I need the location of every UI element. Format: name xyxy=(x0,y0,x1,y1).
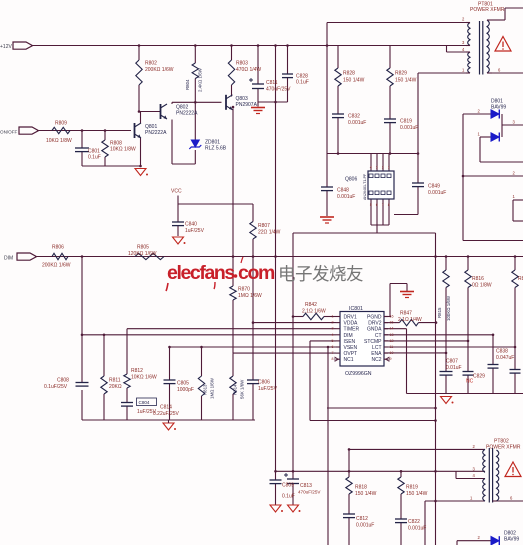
svg-text:0Ω 1/8W: 0Ω 1/8W xyxy=(472,283,492,289)
svg-text:电子发烧友: 电子发烧友 xyxy=(278,264,363,284)
svg-text:0.047uF: 0.047uF xyxy=(496,355,514,361)
svg-text:C840: C840 xyxy=(185,222,197,228)
svg-text:C812: C812 xyxy=(356,516,368,522)
svg-text:1: 1 xyxy=(388,166,390,170)
svg-text:GNDA: GNDA xyxy=(367,327,382,333)
svg-text:C804: C804 xyxy=(139,400,150,405)
svg-text:NC2: NC2 xyxy=(371,357,381,363)
svg-text:R818: R818 xyxy=(355,485,367,491)
svg-text:C822: C822 xyxy=(408,519,420,525)
svg-text:PGND: PGND xyxy=(367,315,382,321)
svg-text:470uF/25V: 470uF/25V xyxy=(298,490,321,495)
svg-text:0.001uF: 0.001uF xyxy=(356,523,374,529)
svg-text:150 1/4W: 150 1/4W xyxy=(406,491,428,497)
svg-text:8: 8 xyxy=(332,357,334,361)
svg-text:R806: R806 xyxy=(52,245,64,251)
svg-text:R811: R811 xyxy=(109,378,121,384)
svg-text:C814: C814 xyxy=(160,405,172,411)
svg-text:8: 8 xyxy=(388,203,390,207)
svg-text:0.01uF: 0.01uF xyxy=(446,365,462,371)
svg-text:VCC: VCC xyxy=(171,189,182,195)
svg-text:56K 1/6W: 56K 1/6W xyxy=(240,379,245,399)
svg-text:20KΩ: 20KΩ xyxy=(109,384,122,390)
svg-text:2.1Ω 1/6W: 2.1Ω 1/6W xyxy=(302,309,326,315)
svg-text:1uF/25V: 1uF/25V xyxy=(258,386,278,392)
svg-text:3: 3 xyxy=(332,327,334,331)
svg-text:12: 12 xyxy=(390,339,394,343)
svg-text:0.1uF: 0.1uF xyxy=(296,80,309,86)
svg-text:BAV99: BAV99 xyxy=(491,105,506,111)
svg-text:IC801: IC801 xyxy=(349,306,363,312)
svg-text:14: 14 xyxy=(390,327,394,331)
svg-text:R805: R805 xyxy=(137,245,149,251)
svg-text:0.001uF: 0.001uF xyxy=(408,526,426,532)
svg-text:2.4KΩ 1/6W: 2.4KΩ 1/6W xyxy=(198,67,203,92)
svg-text:R804: R804 xyxy=(185,79,190,90)
svg-text:R828: R828 xyxy=(343,71,355,77)
svg-text:NC1: NC1 xyxy=(344,357,354,363)
svg-text:DIM: DIM xyxy=(4,256,13,262)
svg-text:C838: C838 xyxy=(496,349,508,355)
svg-text:150 1/4W: 150 1/4W xyxy=(395,78,417,84)
svg-text:10KΩ 1/6W: 10KΩ 1/6W xyxy=(131,375,157,381)
svg-text:0.1uF/25V: 0.1uF/25V xyxy=(44,384,68,390)
svg-text:150 1/4W: 150 1/4W xyxy=(355,491,377,497)
svg-text:AN26481-T1-PF: AN26481-T1-PF xyxy=(363,173,367,200)
svg-text:R809: R809 xyxy=(55,121,67,127)
svg-text:ISEN: ISEN xyxy=(344,339,356,345)
svg-text:R807: R807 xyxy=(258,223,270,229)
svg-text:120KΩ 1/6W: 120KΩ 1/6W xyxy=(128,251,157,257)
svg-text:3: 3 xyxy=(376,166,378,170)
svg-text:11: 11 xyxy=(390,345,394,349)
svg-text:2: 2 xyxy=(382,166,384,170)
svg-text:200KΩ 1/6W: 200KΩ 1/6W xyxy=(42,263,71,269)
svg-text:5: 5 xyxy=(370,203,372,207)
svg-text:R819: R819 xyxy=(406,485,418,491)
svg-text:Q806: Q806 xyxy=(345,177,357,183)
svg-text:R813: R813 xyxy=(203,384,208,395)
svg-text:R815: R815 xyxy=(437,307,442,318)
svg-text:4: 4 xyxy=(332,333,334,337)
svg-text:POWER XFMR: POWER XFMR xyxy=(470,7,505,13)
svg-text:0.22uF/25V: 0.22uF/25V xyxy=(153,411,180,417)
svg-text:R802: R802 xyxy=(145,61,157,67)
svg-text:POWER XFMR: POWER XFMR xyxy=(486,445,521,451)
svg-text:100KΩ 1/6W: 100KΩ 1/6W xyxy=(446,295,451,321)
svg-text:PN2222A: PN2222A xyxy=(176,111,198,117)
svg-text:C809: C809 xyxy=(282,483,294,489)
svg-text:C807: C807 xyxy=(446,359,458,365)
svg-text:BAV99: BAV99 xyxy=(504,537,519,543)
svg-text:2: 2 xyxy=(332,321,334,325)
svg-text:470uF/25V: 470uF/25V xyxy=(266,87,291,93)
svg-text:R803: R803 xyxy=(236,61,248,67)
svg-text:RLZ 5.6B: RLZ 5.6B xyxy=(205,146,227,152)
svg-text:ON/OFF: ON/OFF xyxy=(0,130,18,135)
svg-text:+12V: +12V xyxy=(0,44,12,50)
svg-text:1000pF: 1000pF xyxy=(177,387,194,393)
svg-text:C829: C829 xyxy=(473,374,485,380)
svg-text:470Ω 1/4W: 470Ω 1/4W xyxy=(236,67,261,73)
svg-text:16: 16 xyxy=(390,315,394,319)
svg-text:TIMER: TIMER xyxy=(344,327,360,333)
svg-text:R842: R842 xyxy=(305,302,317,308)
svg-text:R847: R847 xyxy=(400,311,412,317)
svg-text:R870: R870 xyxy=(238,287,250,293)
svg-text:1uF/25V: 1uF/25V xyxy=(185,228,205,234)
svg-text:9: 9 xyxy=(390,357,392,361)
svg-text:13: 13 xyxy=(390,333,394,337)
svg-text:C805: C805 xyxy=(177,381,189,387)
svg-text:6: 6 xyxy=(376,203,378,207)
svg-text:1MΩ 1/6W: 1MΩ 1/6W xyxy=(210,377,215,399)
svg-text:22Ω 1/4W: 22Ω 1/4W xyxy=(258,230,281,236)
svg-text:7: 7 xyxy=(382,203,384,207)
svg-text:VDDA: VDDA xyxy=(344,321,359,327)
svg-text:DIM: DIM xyxy=(344,333,353,339)
svg-text:10: 10 xyxy=(390,351,394,355)
svg-text:10KΩ 1/8W: 10KΩ 1/8W xyxy=(110,147,136,153)
svg-text:C832: C832 xyxy=(348,114,360,120)
svg-text:PN2222A: PN2222A xyxy=(145,130,167,136)
svg-text:OVPT: OVPT xyxy=(344,351,358,357)
svg-text:ENA: ENA xyxy=(371,351,382,357)
svg-text:0.001uF: 0.001uF xyxy=(428,190,446,196)
svg-text:0.1uF: 0.1uF xyxy=(88,155,101,161)
svg-text:1MΩ 1/6W: 1MΩ 1/6W xyxy=(238,293,262,299)
svg-text:7: 7 xyxy=(332,351,334,355)
svg-text:6: 6 xyxy=(332,345,334,349)
svg-text:STCMP: STCMP xyxy=(364,339,382,345)
svg-text:1: 1 xyxy=(332,315,334,319)
svg-text:C811: C811 xyxy=(266,80,278,86)
svg-text:5: 5 xyxy=(332,339,334,343)
svg-text:R812: R812 xyxy=(131,368,143,374)
svg-text:0.001uF: 0.001uF xyxy=(337,194,355,200)
svg-text:15: 15 xyxy=(390,321,394,325)
svg-text:NC: NC xyxy=(466,379,474,385)
svg-text:C819: C819 xyxy=(400,119,412,125)
svg-text:4: 4 xyxy=(370,166,372,170)
svg-text:LCT: LCT xyxy=(372,345,381,351)
svg-text:0.001uF: 0.001uF xyxy=(400,125,418,131)
svg-text:DRV2: DRV2 xyxy=(368,321,381,327)
svg-text:elecfans: elecfans xyxy=(167,262,235,284)
svg-text:0.001uF: 0.001uF xyxy=(348,120,366,126)
svg-text:R8: R8 xyxy=(518,276,523,282)
svg-text:VSEN: VSEN xyxy=(344,345,358,351)
svg-text:C813: C813 xyxy=(300,483,312,489)
svg-text:10KΩ 1/8W: 10KΩ 1/8W xyxy=(46,138,72,144)
svg-text:CT: CT xyxy=(375,333,382,339)
svg-text:C849: C849 xyxy=(428,184,440,190)
svg-text:R829: R829 xyxy=(395,71,407,77)
svg-text:PN2907A: PN2907A xyxy=(236,102,258,108)
svg-text:200KΩ 1/6W: 200KΩ 1/6W xyxy=(145,67,174,73)
svg-text:C806: C806 xyxy=(258,380,270,386)
svg-text:DRV1: DRV1 xyxy=(344,315,357,321)
svg-text:2.1Ω 1/4W: 2.1Ω 1/4W xyxy=(398,317,422,323)
svg-text:C808: C808 xyxy=(57,378,69,384)
svg-text:C848: C848 xyxy=(337,188,349,194)
svg-text:com: com xyxy=(238,262,275,284)
svg-text:R816: R816 xyxy=(472,276,484,282)
svg-text:OZ9996GN: OZ9996GN xyxy=(345,371,372,377)
svg-text:R814: R814 xyxy=(233,384,238,395)
svg-text:0.1uF: 0.1uF xyxy=(282,494,295,500)
svg-text:150 1/4W: 150 1/4W xyxy=(343,78,365,84)
